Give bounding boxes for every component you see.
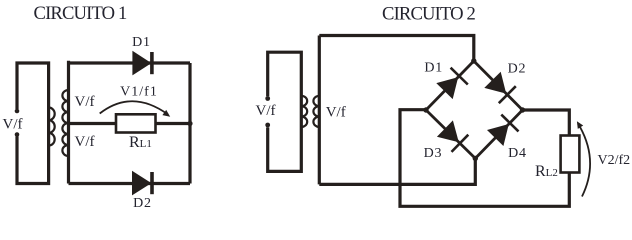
diode D3 bridge cathode bar: [452, 135, 469, 152]
node top dot: [471, 58, 476, 63]
svg-text:V/f: V/f: [75, 94, 95, 110]
svg-text:CIRCUITO 1: CIRCUITO 1: [34, 3, 127, 24]
transformer T1 primary coil: [49, 108, 55, 146]
wire center tap C1: [69, 122, 191, 125]
wire bottom from secondary C2: [319, 158, 475, 184]
diode D3 bridge: [437, 120, 459, 142]
source terminal dot upper C2: [265, 96, 270, 101]
bridge arm upper-right: [474, 61, 523, 110]
svg-text:RL2: RL2: [535, 163, 558, 180]
node left dot: [423, 107, 428, 112]
wire right side C1: [188, 63, 191, 184]
diode D2 cathode bar: [150, 172, 154, 194]
transformer T1 secondary coil: [62, 90, 68, 156]
AC source box circuit 2: [268, 52, 302, 171]
bridge arm lower-right: [475, 110, 522, 158]
diode D1: [132, 51, 151, 76]
wire top rail C1: [69, 61, 191, 64]
source terminal dot upper C1: [15, 109, 20, 114]
svg-text:V2/f2: V2/f2: [598, 153, 631, 168]
diode D1 cathode bar: [150, 52, 154, 74]
wire top rail C2: [319, 36, 474, 62]
svg-text:D1: D1: [132, 35, 151, 50]
transformer T2 primary coil: [301, 96, 307, 127]
diode D4 bridge cathode bar: [501, 115, 518, 132]
source terminal dot lower C1: [15, 132, 20, 137]
source terminal dot lower C2: [265, 123, 270, 128]
resistor RL2: [561, 136, 580, 173]
diode D4 bridge: [487, 124, 509, 146]
svg-text:V/f: V/f: [75, 134, 95, 150]
bridge arm lower-left: [426, 110, 475, 158]
node right dot: [520, 107, 525, 112]
arrow arc V2/f2: [578, 124, 590, 197]
svg-text:D2: D2: [508, 61, 527, 76]
svg-text:D4: D4: [508, 146, 527, 161]
svg-text:V/f: V/f: [256, 103, 276, 119]
svg-text:V/f: V/f: [3, 117, 23, 133]
svg-text:RL1: RL1: [129, 134, 152, 151]
arrowhead V2/f2: [577, 121, 583, 129]
wire right node east C2: [523, 110, 570, 136]
svg-text:D2: D2: [133, 196, 152, 211]
transformer T1 secondary line: [67, 61, 70, 184]
diode D2: [132, 171, 151, 196]
svg-text:D3: D3: [424, 146, 443, 161]
diode D2 bridge cathode bar: [499, 86, 516, 103]
transformer T2 secondary coil: [313, 96, 319, 127]
wire left node west C2: [400, 110, 569, 207]
transformer T2 secondary line: [318, 36, 321, 185]
resistor RL1: [116, 114, 156, 132]
arrow arc V1/f1: [100, 101, 168, 114]
node bottom dot: [473, 156, 478, 161]
diode D2 bridge: [484, 72, 506, 94]
wire bottom rail C1: [69, 182, 191, 185]
svg-text:D1: D1: [424, 61, 443, 76]
AC source box circuit 1: [17, 63, 49, 184]
diode D1 bridge cathode bar: [451, 68, 468, 85]
svg-text:V1/f1: V1/f1: [120, 85, 158, 100]
junction node dot C1: [187, 121, 192, 126]
bridge arm upper-left: [426, 61, 474, 110]
diode D1 bridge: [436, 77, 458, 99]
arrowhead V1/f1: [162, 110, 170, 117]
svg-text:V/f: V/f: [326, 105, 346, 121]
svg-text:CIRCUITO 2: CIRCUITO 2: [382, 4, 475, 25]
